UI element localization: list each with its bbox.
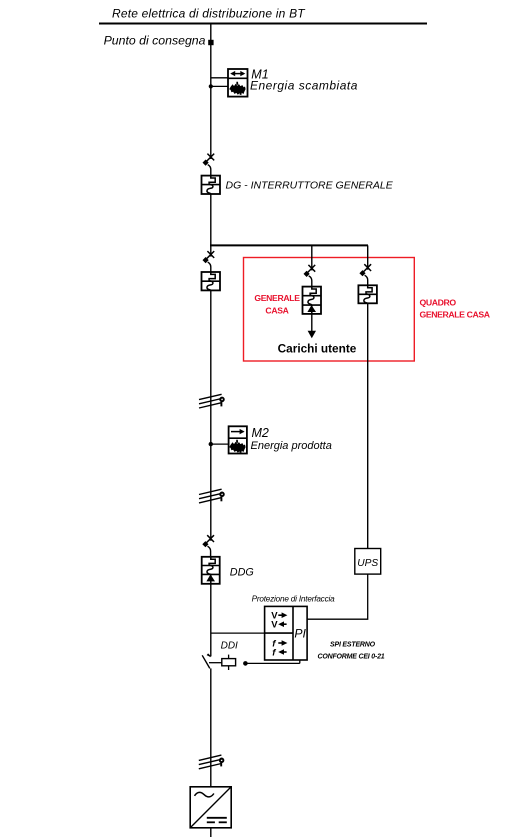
wire: DDI switch down to inverter <box>210 668 212 786</box>
wire: main riser Q1 box to DDG <box>210 290 212 540</box>
svg-text:CONFORME CEI 0-21: CONFORME CEI 0-21 <box>318 653 385 660</box>
svg-text:Energia scambiata: Energia scambiata <box>250 78 358 92</box>
wire: main riser tap to PI relay <box>211 632 265 634</box>
conductor marks (3 slashes) upper <box>199 394 224 408</box>
wire: top distribution bus <box>99 23 427 25</box>
svg-text:M2: M2 <box>252 426 269 440</box>
wire: UPS to PI relay <box>307 574 368 619</box>
wire: right feeder drop from branch bus <box>367 245 369 269</box>
wire: arrow to user loads <box>308 314 316 338</box>
wire: main riser from bus to DG breaker <box>210 24 212 160</box>
svg-text:V: V <box>271 619 278 630</box>
junction dot on riser at M2 tap <box>209 442 213 446</box>
wire: middle feeder drop from branch bus <box>311 245 313 270</box>
node: Punto di consegna (delivery point marker) <box>208 40 213 45</box>
breaker DG: thermal-magnetic box <box>202 176 221 194</box>
UPS U1 <box>355 549 381 575</box>
svg-text:Punto di consegna: Punto di consegna <box>104 33 206 47</box>
svg-text:DDG: DDG <box>230 567 254 579</box>
wire: branch bus to house board <box>210 244 368 246</box>
svg-text:SPI ESTERNO: SPI ESTERNO <box>330 641 376 648</box>
meter M1 <box>228 69 248 97</box>
breaker UPS feeder: thermal-magnetic box <box>358 285 377 303</box>
breaker Q1: thermal-magnetic box <box>202 272 221 290</box>
breaker DG: withdrawable contact (x mark + blade) <box>203 154 215 176</box>
conductor marks (3 slashes) lower <box>199 489 224 503</box>
relay element: f< (underfrequency) <box>272 647 286 658</box>
svg-text:Energia prodotta: Energia prodotta <box>251 440 332 452</box>
wire: M1 lower tap <box>211 85 228 87</box>
svg-text:PI: PI <box>294 627 306 641</box>
relay element: f> (overfrequency) <box>272 638 287 649</box>
breaker DDG: contact x mark + blade <box>202 535 214 557</box>
breaker GENERALE CASA: thermal-magnetic-differential box <box>303 287 322 314</box>
svg-text:Rete elettrica di distribuzion: Rete elettrica di distribuzione in BT <box>112 7 306 21</box>
switch DDI: contact blade <box>202 654 211 669</box>
svg-text:GENERALE CASA: GENERALE CASA <box>420 310 491 320</box>
relay element: V< (undervoltage) <box>271 619 286 630</box>
distribution board outline: QUADRO GENERALE CASA (red) <box>244 258 415 362</box>
junction dot on riser at M1 tap <box>209 84 213 88</box>
wire: riser DDG to DDI switch <box>210 584 212 657</box>
breaker Q1 (left feeder): contact x mark + blade <box>203 245 215 272</box>
svg-text:DG - INTERRUTTORE GENERALE: DG - INTERRUTTORE GENERALE <box>226 180 394 192</box>
wire: trip link from PI to DDI with dot terminal <box>243 660 300 666</box>
wire: M1 upper tap <box>211 77 228 79</box>
svg-text:Carichi utente: Carichi utente <box>278 342 357 356</box>
switch DDI: actuator coil <box>209 655 236 670</box>
svg-text:Protezione di Interfaccia: Protezione di Interfaccia <box>252 595 335 604</box>
svg-text:DDI: DDI <box>221 641 238 652</box>
svg-text:GENERALE: GENERALE <box>254 293 300 303</box>
relay PI: protection box <box>265 606 308 660</box>
svg-text:CASA: CASA <box>265 305 288 315</box>
wire: riser DG box to branch node <box>210 194 212 245</box>
wire: below inverter <box>210 828 212 837</box>
conductor marks (3 slashes) at inverter <box>199 755 224 769</box>
wire: right feeder down to UPS <box>367 303 369 548</box>
svg-text:UPS: UPS <box>357 558 378 569</box>
meter M2 <box>229 426 247 453</box>
breaker DDG: thermal-magnetic-differential box <box>202 557 220 584</box>
breaker GENERALE CASA: contact x mark + blade <box>304 265 316 287</box>
svg-text:QUADRO: QUADRO <box>420 297 457 307</box>
wire: M2 tap <box>211 443 229 445</box>
inverter U2 (DC/AC converter) <box>190 787 231 828</box>
breaker UPS feeder: contact x mark + blade <box>359 264 371 285</box>
relay element: V> (overvoltage) <box>271 610 287 621</box>
